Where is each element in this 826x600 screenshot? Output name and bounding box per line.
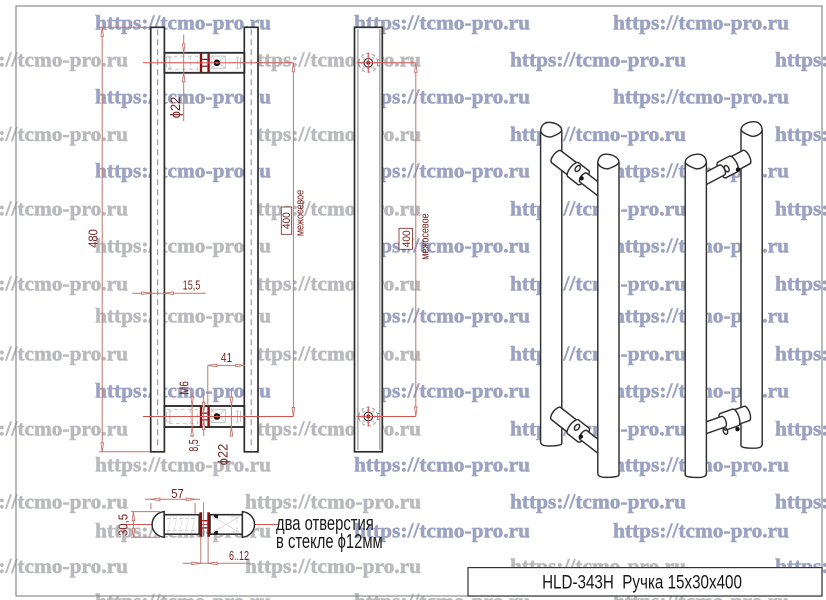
svg-text:межосевое: межосевое [420, 213, 432, 260]
svg-text:https://tcmo-pro.ru: https://tcmo-pro.ru [245, 48, 421, 72]
svg-text:https://tcmo-pro.ru: https://tcmo-pro.ru [613, 519, 789, 543]
svg-text:https://tcmo-pro.ru: https://tcmo-pro.ru [95, 453, 271, 477]
svg-text:57: 57 [171, 486, 184, 501]
svg-text:15,5: 15,5 [183, 279, 201, 293]
3d handle 1 front bar [598, 154, 619, 477]
bottom view: maroon glass clamp [199, 512, 202, 537]
3d handle 2 front bar [685, 154, 706, 477]
bottom crossbar (pin) assembly [164, 406, 244, 427]
dashed centerline right bar [250, 29, 252, 450]
red centerline top pin [143, 62, 293, 64]
svg-text:41: 41 [221, 352, 232, 365]
svg-text:HLD-343H Ручка 15х30х400: HLD-343H Ручка 15х30х400 [542, 571, 742, 593]
svg-text:https://tcmo-pro.ru: https://tcmo-pro.ru [0, 417, 128, 441]
top crossbar (pin) assembly [164, 53, 244, 73]
dimension 6..12 [183, 562, 251, 564]
3d handle 2 rear bar [741, 122, 762, 449]
svg-text:https://tcmo-pro.ru: https://tcmo-pro.ru [245, 554, 421, 578]
glass centerline vertical [203, 503, 205, 537]
svg-text:https://tcmo-pro.ru: https://tcmo-pro.ru [245, 272, 421, 296]
svg-text:https://tcmo-pro.ru: https://tcmo-pro.ru [245, 342, 421, 366]
dimension d22 bottom pin [230, 390, 232, 437]
3d handle 1 bottom pin [551, 407, 579, 433]
dimension 400 mezhosevoe side view [381, 62, 416, 64]
svg-text:400: 400 [280, 212, 292, 229]
front view: right handle bar [244, 27, 258, 452]
svg-text:https://tcmo-pro.ru: https://tcmo-pro.ru [0, 272, 128, 296]
3d handle 1 top pin [551, 150, 578, 176]
svg-text:https://tcmo-pro.ru: https://tcmo-pro.ru [775, 272, 826, 296]
svg-text:https://tcmo-pro.ru: https://tcmo-pro.ru [0, 490, 128, 514]
svg-text:6..12: 6..12 [229, 550, 249, 564]
svg-text:https://tcmo-pro.ru: https://tcmo-pro.ru [775, 342, 826, 366]
bottom view: right sleeve [210, 515, 242, 535]
svg-text:ϕ22: ϕ22 [215, 444, 230, 465]
dimension 57 [145, 498, 200, 500]
svg-text:https://tcmo-pro.ru: https://tcmo-pro.ru [0, 197, 128, 221]
3d handle 1 rear bar [541, 122, 562, 446]
dimension M6 [191, 394, 193, 438]
svg-text:8,5: 8,5 [188, 439, 202, 451]
bottom view: threaded shaft [164, 515, 199, 535]
side view inner edge lines [357, 29, 359, 450]
dimension 30,5 [132, 512, 134, 538]
side view: handle bar [355, 27, 383, 452]
svg-text:https://tcmo-pro.ru: https://tcmo-pro.ru [613, 11, 789, 35]
dimension 15,5 [132, 292, 205, 294]
dimension 41 [208, 364, 245, 366]
svg-text:https://tcmo-pro.ru: https://tcmo-pro.ru [245, 122, 421, 146]
front view: left handle bar [151, 27, 165, 452]
svg-text:https://tcmo-pro.ru: https://tcmo-pro.ru [245, 197, 421, 221]
svg-text:межосевое: межосевое [295, 189, 307, 236]
svg-text:https://tcmo-pro.ru: https://tcmo-pro.ru [775, 490, 826, 514]
svg-text:400: 400 [401, 230, 413, 247]
3d isometric view of paired handles [541, 122, 763, 478]
svg-text:https://tcmo-pro.ru: https://tcmo-pro.ru [245, 490, 421, 514]
side view: top mounting hole [359, 53, 378, 72]
bottom view: right half-round bar section [242, 512, 254, 538]
dashed centerline left bar [157, 29, 159, 450]
3d handle 2 bottom pin [732, 406, 751, 424]
svg-text:https://tcmo-pro.ru: https://tcmo-pro.ru [0, 122, 128, 146]
svg-text:https://tcmo-pro.ru: https://tcmo-pro.ru [354, 453, 530, 477]
red centerline bottom pin [143, 416, 293, 418]
bottom view: left half-round bar section [152, 512, 164, 538]
dimension 8,5 [203, 394, 205, 411]
svg-text:в стекле ϕ12мм: в стекле ϕ12мм [276, 530, 383, 553]
dimension 400 mezhosevoe front view [292, 63, 294, 417]
svg-text:https://tcmo-pro.ru: https://tcmo-pro.ru [613, 85, 789, 109]
svg-text:https://tcmo-pro.ru: https://tcmo-pro.ru [0, 342, 128, 366]
svg-text:https://tcmo-pro.ru: https://tcmo-pro.ru [0, 48, 128, 72]
svg-text:М6: М6 [179, 381, 192, 395]
svg-text:https://tcmo-pro.ru: https://tcmo-pro.ru [510, 48, 686, 72]
svg-text:https://tcmo-pro.ru: https://tcmo-pro.ru [775, 48, 826, 72]
bottom view red centerline [125, 524, 280, 526]
svg-text:https://tcmo-pro.ru: https://tcmo-pro.ru [0, 554, 128, 578]
svg-text:480: 480 [86, 229, 101, 248]
svg-text:https://tcmo-pro.ru: https://tcmo-pro.ru [775, 417, 826, 441]
svg-text:https://tcmo-pro.ru: https://tcmo-pro.ru [775, 122, 826, 146]
svg-text:https://tcmo-pro.ru: https://tcmo-pro.ru [775, 197, 826, 221]
dimension d22 top pin [183, 35, 185, 122]
svg-text:https://tcmo-pro.ru: https://tcmo-pro.ru [95, 589, 271, 600]
svg-text:https://tcmo-pro.ru: https://tcmo-pro.ru [510, 122, 686, 146]
3d handle 2 top pin [729, 150, 751, 170]
svg-text:https://tcmo-pro.ru: https://tcmo-pro.ru [510, 490, 686, 514]
svg-text:ϕ22: ϕ22 [167, 97, 182, 118]
svg-text:30,5: 30,5 [116, 514, 131, 536]
svg-text:https://tcmo-pro.ru: https://tcmo-pro.ru [245, 417, 421, 441]
title block [468, 568, 822, 596]
dimension 480 [101, 27, 103, 452]
side view: bottom mounting hole [359, 407, 378, 426]
